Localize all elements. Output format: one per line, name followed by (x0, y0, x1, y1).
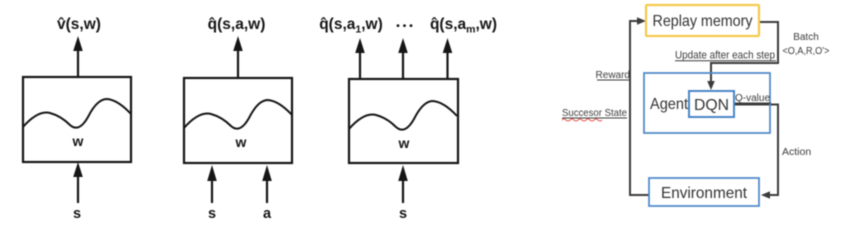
svg-text:q̂(s,am,w): q̂(s,am,w) (430, 16, 497, 36)
red spellcheck squiggle (562, 119, 602, 121)
svg-text:Q-value: Q-value (735, 93, 770, 104)
wire replay memory to DQN (update path) (711, 22, 778, 83)
svg-text:Replay memory: Replay memory (653, 13, 753, 30)
arrowhead into replay memory (637, 17, 646, 25)
svg-text:Batch: Batch (793, 32, 819, 43)
box 2 (q network) (184, 78, 292, 163)
svg-text:Agent: Agent (650, 96, 689, 113)
agent box (644, 73, 770, 133)
wave in box 3 (349, 101, 457, 130)
svg-text:Environment: Environment (661, 185, 748, 202)
svg-text:Succesor State: Succesor State (562, 108, 627, 119)
svg-text:q̂(s,a,w): q̂(s,a,w) (208, 16, 266, 33)
svg-text:s: s (399, 206, 407, 222)
arrows of left figure (73, 36, 452, 203)
output arrow box3 left (355, 38, 365, 79)
svg-text:s: s (73, 206, 81, 222)
label: Q-value (735, 93, 771, 104)
environment box (649, 178, 759, 206)
wave in box 2 (184, 100, 292, 129)
arrowhead into environment (761, 191, 770, 199)
input arrow box2 (s) (207, 165, 217, 203)
output arrow box3 middle (398, 38, 408, 79)
label: Reward (596, 70, 630, 81)
input arrow box2 (a) (262, 165, 272, 203)
svg-text:w: w (398, 135, 410, 151)
svg-text:Update after each step: Update after each step (675, 50, 775, 62)
left figure labels (57, 16, 497, 222)
svg-text:v̂(s,w): v̂(s,w) (57, 16, 101, 33)
wire DQN q-value to environment (action path) (734, 105, 778, 196)
label: Succesor State (562, 108, 627, 121)
replay memory box (646, 5, 759, 36)
wire environment to replay memory (left loop) (630, 21, 649, 195)
svg-text:<O,A,R,O’>: <O,A,R,O’> (783, 46, 830, 57)
output arrow box3 right (443, 38, 453, 79)
svg-text:a: a (263, 206, 272, 222)
ellipsis dots (397, 24, 413, 27)
svg-text:w: w (72, 133, 84, 149)
wave in box 1 (23, 99, 131, 128)
arrowhead into DQN (707, 81, 715, 90)
svg-text:Action: Action (782, 146, 811, 158)
input arrow box1 (s) (73, 162, 83, 203)
svg-text:q̂(s,a1,w): q̂(s,a1,w) (319, 16, 383, 36)
svg-text:DQN: DQN (694, 97, 729, 114)
box 1 (value network) (23, 77, 131, 162)
svg-text:Reward: Reward (596, 70, 630, 81)
label: update after each step (675, 50, 776, 62)
svg-text:s: s (208, 206, 216, 222)
output arrow box2 (233, 36, 243, 78)
input arrow box3 (s) (398, 165, 408, 203)
output arrow box1 (73, 36, 83, 77)
svg-text:w: w (235, 134, 247, 150)
box 3 (multi-action q network) (349, 79, 458, 163)
DQN box (689, 91, 734, 117)
